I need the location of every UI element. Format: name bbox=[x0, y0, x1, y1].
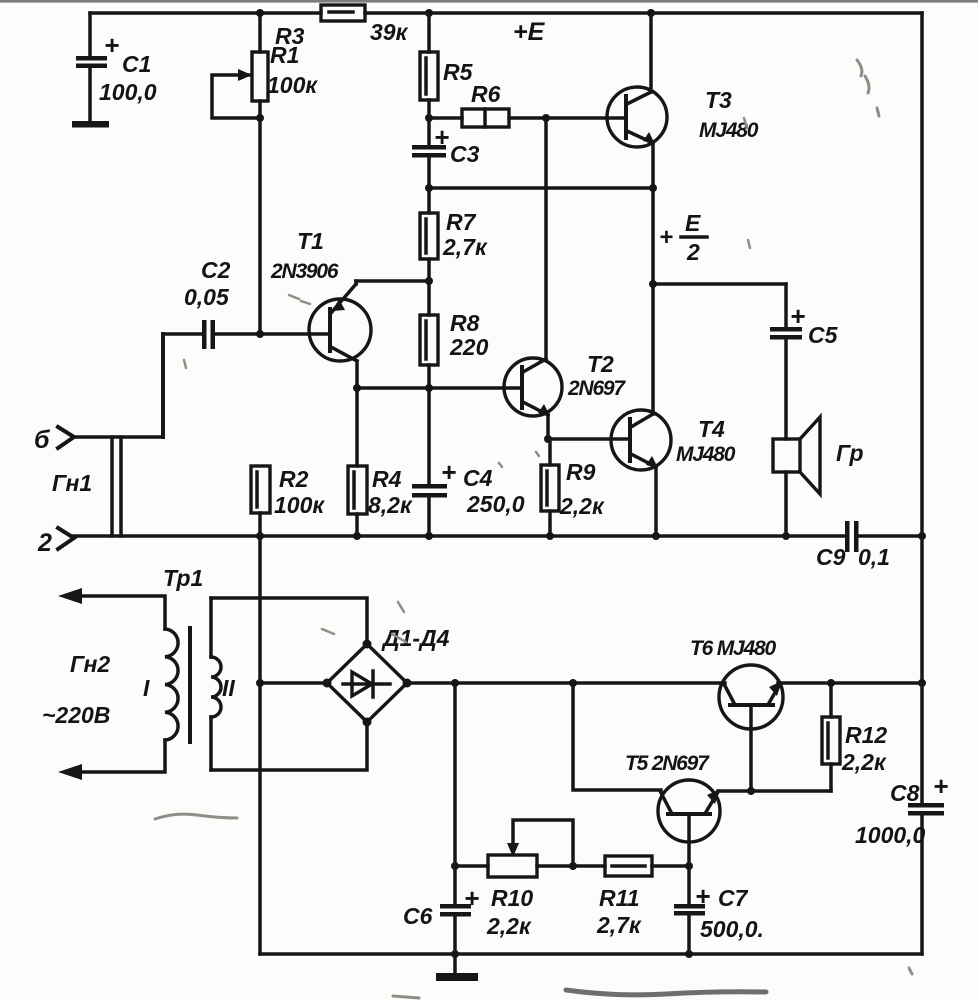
svg-text:б: б bbox=[34, 426, 51, 454]
node T6 base R12 bbox=[747, 787, 755, 795]
svg-text:100к: 100к bbox=[267, 72, 318, 98]
wire T5 base feed bbox=[573, 683, 661, 790]
svg-text:Гн1: Гн1 bbox=[52, 470, 92, 496]
svg-text:+: + bbox=[933, 771, 948, 801]
transformer Tr1 bbox=[163, 565, 203, 591]
node T1 collector bbox=[353, 384, 361, 392]
svg-text:R4: R4 bbox=[372, 466, 402, 492]
node output C5 bbox=[649, 280, 657, 288]
node T5 base C7 bbox=[685, 862, 693, 870]
svg-text:C9: C9 bbox=[816, 544, 846, 570]
svg-text:2: 2 bbox=[37, 529, 52, 557]
input terminal 2 bbox=[37, 528, 74, 557]
svg-text:II: II bbox=[222, 675, 235, 701]
svg-text:~220В: ~220В bbox=[42, 702, 110, 728]
svg-text:2N3906: 2N3906 bbox=[270, 260, 339, 283]
resistor R8 bbox=[420, 310, 489, 485]
wire top rail right bbox=[365, 11, 922, 15]
svg-text:R6: R6 bbox=[471, 81, 501, 107]
node rail T5 feed bbox=[569, 679, 577, 687]
wire bottom bus bbox=[260, 952, 922, 956]
svg-text:C1: C1 bbox=[122, 51, 151, 77]
node T3 emitter bbox=[649, 184, 657, 192]
wire left column down bbox=[258, 536, 262, 954]
resistor R4 bbox=[348, 388, 413, 536]
node T2 emitter bbox=[544, 435, 552, 443]
label Gn2 bbox=[70, 651, 110, 677]
arrow mains top bbox=[58, 588, 82, 604]
node bridge right bbox=[403, 679, 412, 688]
wire right edge lower bbox=[920, 815, 924, 954]
svg-text:2,7к: 2,7к bbox=[596, 912, 642, 938]
svg-text:Т2: Т2 bbox=[587, 351, 614, 377]
resistor R3 bbox=[275, 5, 409, 49]
node bus C4 bbox=[425, 532, 433, 540]
svg-text:+: + bbox=[464, 883, 479, 913]
capacitor C2 bbox=[164, 257, 328, 349]
label 220V bbox=[42, 702, 110, 728]
svg-text:Т1: Т1 bbox=[297, 228, 324, 254]
svg-text:1000,0: 1000,0 bbox=[855, 822, 926, 848]
connector Gn1 twin line bbox=[112, 437, 121, 536]
node top rail T3 bbox=[647, 9, 655, 17]
resistor R2 bbox=[251, 466, 325, 536]
node R8 T2 base bbox=[425, 384, 433, 392]
svg-text:MJ480: MJ480 bbox=[676, 443, 736, 466]
node bus T4 bbox=[652, 532, 660, 540]
wire dc rail right bbox=[778, 681, 922, 685]
svg-text:Гр: Гр bbox=[836, 440, 864, 466]
svg-text:C4: C4 bbox=[463, 465, 493, 491]
wire bus right of C9 bbox=[859, 534, 922, 538]
wire output node to C5 bbox=[653, 282, 786, 286]
node bridge top bbox=[363, 640, 372, 649]
svg-text:Т5 2N697: Т5 2N697 bbox=[625, 752, 710, 775]
node rail R12 bbox=[827, 679, 835, 687]
node bus R9 bbox=[546, 532, 554, 540]
svg-text:2: 2 bbox=[686, 239, 700, 265]
wire signal bus bbox=[74, 534, 847, 538]
wire bridge to left column bbox=[260, 681, 327, 685]
resistor R7 bbox=[420, 209, 488, 315]
svg-text:Тр1: Тр1 bbox=[163, 565, 203, 591]
node bus right edge bbox=[918, 532, 926, 540]
svg-text:+: + bbox=[104, 30, 119, 60]
node R6 T2 collector bbox=[542, 114, 550, 122]
wire T1 emitter to R7/R8 node bbox=[356, 279, 429, 283]
capacitor C7 bbox=[674, 866, 764, 954]
capacitor C3 bbox=[412, 122, 480, 213]
capacitor C5 bbox=[770, 284, 839, 439]
capacitor C1 bbox=[72, 13, 157, 128]
node C3 output bbox=[425, 184, 433, 192]
resistor R5 bbox=[420, 13, 474, 146]
svg-text:R7: R7 bbox=[446, 209, 477, 235]
node T1 base bbox=[256, 330, 264, 338]
secondary winding II bbox=[211, 598, 367, 770]
speaker Gr bbox=[773, 417, 864, 536]
svg-text:R3: R3 bbox=[275, 23, 305, 49]
node bridge bottom bbox=[363, 718, 372, 727]
svg-text:2,7к: 2,7к bbox=[442, 234, 488, 260]
arrow mains bottom bbox=[58, 764, 82, 780]
svg-text:Т4: Т4 bbox=[698, 416, 725, 442]
input terminal b bbox=[34, 334, 163, 496]
node R10 R11 wiper bbox=[569, 862, 577, 870]
capacitor C4 bbox=[412, 457, 525, 536]
svg-text:100к: 100к bbox=[274, 492, 325, 518]
svg-text:2,2к: 2,2к bbox=[486, 913, 532, 939]
node bridge left bbox=[323, 679, 332, 688]
svg-text:R5: R5 bbox=[443, 59, 474, 85]
node R5 R6 C3 bbox=[425, 114, 433, 122]
ground bbox=[436, 954, 478, 981]
svg-text:R2: R2 bbox=[279, 466, 309, 492]
svg-text:+: + bbox=[790, 301, 805, 331]
svg-text:100,0: 100,0 bbox=[99, 79, 157, 105]
transformer core bbox=[188, 628, 192, 742]
svg-text:E: E bbox=[685, 210, 701, 236]
svg-text:2,2к: 2,2к bbox=[841, 749, 887, 775]
node +E/2 label bbox=[659, 210, 707, 265]
svg-text:I: I bbox=[143, 675, 150, 701]
svg-text:+: + bbox=[695, 881, 710, 911]
node R7 R8 emitter bbox=[425, 277, 433, 285]
node +E label bbox=[513, 18, 546, 46]
capacitor C9 bbox=[816, 521, 890, 570]
node bus R2 bbox=[256, 532, 264, 540]
node R1 wiper bbox=[256, 114, 264, 122]
potentiometer R10 bbox=[455, 820, 573, 939]
wire top rail left bbox=[90, 11, 321, 15]
svg-text:Т6 MJ480: Т6 MJ480 bbox=[690, 637, 776, 660]
svg-text:C2: C2 bbox=[201, 257, 231, 283]
svg-text:+: + bbox=[659, 224, 673, 251]
node top rail R5 bbox=[425, 9, 433, 17]
svg-text:R12: R12 bbox=[845, 722, 887, 748]
transistor T6 bbox=[690, 637, 783, 791]
transistor T5 bbox=[625, 752, 720, 866]
wire C3 to output node bbox=[429, 186, 653, 190]
svg-text:C8: C8 bbox=[890, 780, 920, 806]
resistor R12 bbox=[822, 683, 887, 791]
svg-text:Т3: Т3 bbox=[705, 87, 732, 113]
svg-text:+: + bbox=[441, 457, 456, 487]
node bottom bus C6 bbox=[451, 950, 459, 958]
potentiometer R1 bbox=[212, 13, 318, 334]
svg-text:Гн2: Гн2 bbox=[70, 651, 110, 677]
svg-text:+E: +E bbox=[513, 18, 546, 46]
svg-text:C6: C6 bbox=[403, 903, 433, 929]
svg-text:39к: 39к bbox=[370, 19, 409, 45]
primary winding I bbox=[76, 596, 178, 772]
capacitor C6 bbox=[403, 683, 479, 954]
svg-text:8,2к: 8,2к bbox=[368, 492, 413, 518]
diode bridge D1-D4 bbox=[327, 625, 450, 722]
svg-text:0,1: 0,1 bbox=[858, 544, 890, 570]
node bridge left column bbox=[256, 679, 264, 687]
svg-text:R11: R11 bbox=[599, 885, 640, 911]
wire right edge upper bbox=[920, 13, 924, 804]
node rail C6 bbox=[451, 679, 459, 687]
node bottom bus C7 bbox=[685, 950, 693, 958]
transistor T3 bbox=[607, 13, 759, 414]
svg-text:R10: R10 bbox=[491, 885, 533, 911]
transistor T2 bbox=[357, 118, 626, 439]
svg-text:220: 220 bbox=[449, 334, 489, 360]
wire dc rail left bbox=[407, 681, 725, 685]
resistor R9 bbox=[541, 439, 605, 536]
transistor T4 bbox=[548, 410, 736, 536]
svg-text:+: + bbox=[434, 122, 449, 152]
capacitor C8 bbox=[855, 771, 948, 848]
wire T5 emitter to R12 bbox=[718, 789, 831, 793]
svg-text:250,0: 250,0 bbox=[466, 491, 525, 517]
svg-text:C3: C3 bbox=[450, 141, 480, 167]
resistor R11 bbox=[573, 856, 689, 938]
svg-text:C5: C5 bbox=[808, 322, 839, 348]
node top rail R1 bbox=[256, 9, 264, 17]
svg-text:Д1-Д4: Д1-Д4 bbox=[381, 625, 450, 651]
svg-text:MJ480: MJ480 bbox=[699, 119, 759, 142]
transistor T1 bbox=[270, 228, 371, 388]
node rail right edge bbox=[918, 679, 926, 687]
node bus R4 bbox=[353, 532, 361, 540]
svg-text:R9: R9 bbox=[566, 459, 596, 485]
svg-text:2N697: 2N697 bbox=[567, 377, 626, 400]
svg-text:C7: C7 bbox=[718, 885, 749, 911]
resistor R6 bbox=[429, 81, 624, 127]
svg-text:R8: R8 bbox=[450, 310, 480, 336]
svg-text:500,0.: 500,0. bbox=[700, 916, 764, 942]
node bus speaker bbox=[782, 532, 790, 540]
node C6 R10 bbox=[451, 862, 459, 870]
svg-text:2,2к: 2,2к bbox=[559, 493, 605, 519]
svg-text:0,05: 0,05 bbox=[184, 284, 230, 310]
